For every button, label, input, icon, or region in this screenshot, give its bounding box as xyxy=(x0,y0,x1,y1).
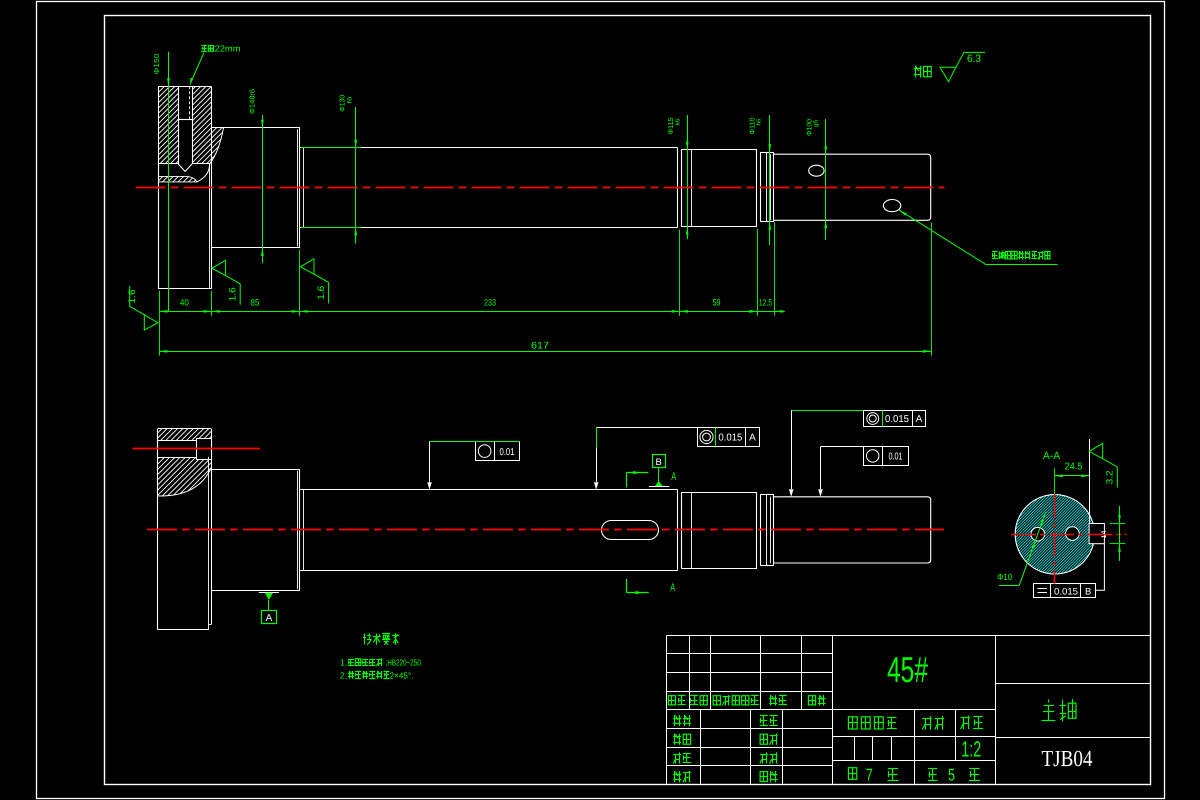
svg-text:40: 40 xyxy=(180,298,189,308)
svg-text:B: B xyxy=(656,457,662,468)
svg-text:0.015: 0.015 xyxy=(885,414,909,425)
svg-text:Φ115: Φ115 xyxy=(666,118,675,135)
svg-text:A-A: A-A xyxy=(1043,450,1060,462)
svg-text:3.2: 3.2 xyxy=(1105,470,1116,484)
svg-text:B: B xyxy=(1085,587,1091,598)
svg-text:1:2: 1:2 xyxy=(961,736,981,761)
svg-text:6.3: 6.3 xyxy=(967,53,981,65)
svg-text:85: 85 xyxy=(250,298,259,308)
svg-text:45#: 45# xyxy=(887,649,928,690)
svg-text:2.: 2. xyxy=(340,670,347,680)
svg-text:0.01: 0.01 xyxy=(889,451,903,462)
svg-text:233: 233 xyxy=(484,298,496,308)
svg-text:14: 14 xyxy=(1101,530,1108,538)
svg-text:1.6: 1.6 xyxy=(228,287,239,301)
svg-text:Φ100: Φ100 xyxy=(804,119,813,136)
svg-text:0.015: 0.015 xyxy=(1054,587,1078,598)
svg-text:1.: 1. xyxy=(340,658,347,668)
svg-text:A: A xyxy=(266,613,273,624)
svg-text:A: A xyxy=(670,582,675,594)
svg-text:Φ110: Φ110 xyxy=(748,118,757,135)
svg-text:g5: g5 xyxy=(813,119,820,127)
svg-text:f6: f6 xyxy=(346,96,353,104)
svg-text:12.5: 12.5 xyxy=(759,298,772,308)
svg-text:h6: h6 xyxy=(756,118,763,126)
svg-text:Φ130: Φ130 xyxy=(338,95,347,112)
svg-text:A: A xyxy=(916,414,923,425)
svg-text:TJB04: TJB04 xyxy=(1042,746,1093,771)
svg-text:24.5: 24.5 xyxy=(1065,462,1083,473)
svg-text:22mm: 22mm xyxy=(215,44,241,54)
svg-text:5: 5 xyxy=(948,765,955,784)
svg-text:A: A xyxy=(671,471,676,483)
svg-text:Φ10: Φ10 xyxy=(997,572,1012,582)
svg-text:k6: k6 xyxy=(674,118,681,126)
svg-text:,HB220~250.: ,HB220~250. xyxy=(386,658,423,668)
svg-text:2×45°.: 2×45°. xyxy=(390,670,414,680)
svg-text:1.6: 1.6 xyxy=(127,289,138,303)
svg-text:Φ150: Φ150 xyxy=(152,54,161,75)
svg-text:1.6: 1.6 xyxy=(316,286,327,300)
svg-text:617: 617 xyxy=(531,340,549,351)
svg-text:0.01: 0.01 xyxy=(500,447,515,458)
svg-text:Φ148r6: Φ148r6 xyxy=(248,89,257,114)
svg-text:59: 59 xyxy=(713,298,721,308)
svg-text:A: A xyxy=(749,433,756,444)
svg-text:7: 7 xyxy=(866,765,873,784)
svg-text:0.015: 0.015 xyxy=(718,433,742,444)
